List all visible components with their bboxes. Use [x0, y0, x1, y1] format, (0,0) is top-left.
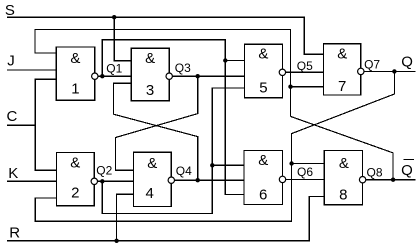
junction dot gate7 input3: [288, 85, 292, 89]
wire R branch to gate4 input3: [117, 194, 134, 241]
svg-text:2: 2: [71, 184, 79, 201]
svg-text:1: 1: [71, 81, 79, 98]
wire Q8 output to Qbar: [366, 179, 416, 181]
gate U8 box: [324, 151, 362, 205]
gate U5 box: [244, 44, 282, 98]
wire Q4 cross to gate3 input3: [114, 83, 198, 180]
junction dot Q2 node: [100, 179, 104, 183]
wire Qbar branch to gate7 input3: [291, 86, 324, 88]
svg-text:6: 6: [259, 186, 267, 203]
wire S branch to gate3 input1: [114, 17, 131, 61]
wire Q2 branch to gate6 input1: [212, 164, 244, 166]
svg-text:&: &: [147, 155, 157, 172]
svg-text:S: S: [5, 2, 15, 19]
svg-text:Q6: Q6: [297, 165, 313, 179]
svg-text:Q1: Q1: [106, 61, 122, 75]
gate U2 output bubble: [91, 178, 97, 184]
junction dot S branch: [112, 15, 116, 19]
gate U5 output bubble: [279, 69, 285, 75]
svg-text:J: J: [7, 53, 15, 70]
wire Q2 feedback to gate6 and gate5: [102, 88, 244, 213]
wire K to gate2 input2: [7, 180, 56, 182]
svg-text:Q3: Q3: [175, 61, 191, 75]
junction dot gate8 input1: [289, 161, 293, 165]
wire Q branch to gate8 input1: [292, 163, 324, 165]
wire Q feedback to gate2 input3: [35, 71, 394, 221]
svg-text:Q2: Q2: [96, 164, 112, 178]
svg-text:4: 4: [146, 185, 154, 202]
wire Qbar diagonal from Qbar node: [291, 116, 394, 179]
svg-text:7: 7: [338, 78, 346, 95]
junction dot gate6 input1 branch: [210, 163, 214, 167]
svg-text:Q: Q: [401, 53, 413, 70]
junction dot gate5 input1 branch: [223, 58, 227, 62]
gate U6 output bubble: [279, 176, 285, 182]
junction dot Q4 node: [196, 178, 200, 182]
svg-text:8: 8: [339, 187, 347, 204]
junction dot Q3 node: [196, 74, 200, 78]
overbar of Qbar: [403, 158, 414, 160]
svg-text:&: &: [70, 154, 80, 171]
wire C input: [7, 124, 35, 126]
svg-text:5: 5: [259, 79, 267, 96]
wire J to gate1 input2: [7, 69, 56, 71]
svg-text:K: K: [8, 165, 18, 182]
gate U4 box: [133, 152, 171, 206]
wire S line to gate7 input1: [7, 17, 324, 54]
svg-text:&: &: [70, 50, 80, 67]
svg-text:Q4: Q4: [176, 164, 192, 178]
svg-text:&: &: [337, 46, 347, 63]
svg-text:Q5: Q5: [297, 59, 313, 73]
wire Q3 output to gate5 input2: [172, 75, 244, 77]
wire Q1 branch to gate5 input1: [225, 60, 244, 62]
svg-text:Q7: Q7: [364, 57, 380, 71]
svg-text:R: R: [9, 224, 20, 241]
junction dot Q1 node: [100, 74, 104, 78]
junction dot R branch: [114, 239, 118, 243]
svg-text:C: C: [7, 108, 18, 125]
gate U8 output bubble: [359, 177, 365, 183]
junction dot Q node: [392, 69, 396, 73]
gate U1 box: [56, 47, 95, 100]
wire C bus to gate1 input3 and gate2 input1: [35, 79, 56, 170]
gate U4 output bubble: [168, 177, 174, 183]
wire Q4 output to gate6 input2: [174, 179, 244, 181]
wire Q5 output to gate7 input2: [286, 71, 324, 73]
gate U3 output bubble: [166, 73, 172, 79]
wire R line to gate8 input3: [7, 197, 324, 241]
gate U1 output bubble: [92, 73, 98, 79]
gate U7 output bubble: [358, 68, 364, 74]
wire Q3 cross to gate4 input1: [116, 76, 198, 170]
gate U6 box: [244, 151, 283, 205]
svg-text:&: &: [258, 152, 268, 169]
wire Qbar feedback top line to gate1 input1: [35, 29, 291, 116]
wire Q2 output to gate4 input2: [98, 180, 134, 182]
svg-text:&: &: [145, 50, 155, 67]
wire Q1 output to gate3 input2: [98, 75, 131, 77]
wire Q6 output to gate8 input2: [286, 178, 324, 180]
gate U2 box: [56, 153, 94, 206]
svg-text:Q8: Q8: [367, 165, 383, 179]
wire Q7 output to Q: [364, 70, 415, 72]
junction dot Qbar node: [391, 178, 395, 182]
gate U7 box: [324, 44, 361, 95]
svg-text:Q: Q: [401, 162, 413, 179]
svg-text:&: &: [339, 155, 349, 172]
gate U3 box: [131, 48, 169, 100]
svg-text:&: &: [258, 46, 268, 63]
wire Q1 feedback to gate5 and gate6: [102, 40, 244, 195]
svg-text:3: 3: [146, 82, 154, 99]
